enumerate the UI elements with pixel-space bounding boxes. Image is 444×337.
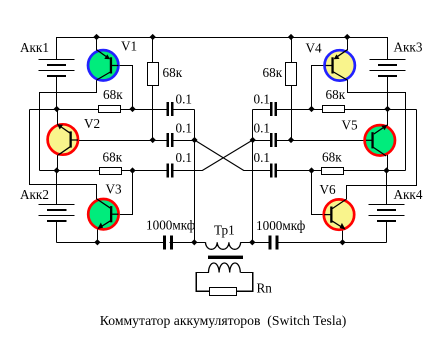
svg-text:V1: V1 <box>121 39 137 54</box>
svg-text:0.1: 0.1 <box>176 92 192 107</box>
svg-text:0.1: 0.1 <box>176 121 192 136</box>
svg-text:68к: 68к <box>322 150 342 165</box>
svg-text:1000мкф: 1000мкф <box>146 218 196 233</box>
svg-text:Rn: Rn <box>257 281 273 296</box>
svg-text:68к: 68к <box>103 150 123 165</box>
svg-text:0.1: 0.1 <box>254 150 270 165</box>
svg-text:68к: 68к <box>326 87 346 102</box>
svg-text:0.1: 0.1 <box>176 150 192 165</box>
svg-text:V5: V5 <box>342 118 359 133</box>
svg-text:68к: 68к <box>103 87 123 102</box>
svg-text:Коммутатор аккумуляторов (Swi: Коммутатор аккумуляторов (Switch Tesla) <box>100 313 346 329</box>
svg-text:Акк3: Акк3 <box>394 40 423 55</box>
svg-text:V3: V3 <box>106 182 123 197</box>
svg-text:V4: V4 <box>306 41 323 56</box>
svg-text:V6: V6 <box>320 182 337 197</box>
svg-text:0.1: 0.1 <box>254 92 270 107</box>
svg-text:0.1: 0.1 <box>254 121 270 136</box>
svg-text:1000мкф: 1000мкф <box>256 218 306 233</box>
svg-text:Акк2: Акк2 <box>20 187 49 202</box>
svg-text:Тр1: Тр1 <box>214 223 235 238</box>
svg-text:Акк1: Акк1 <box>20 40 49 55</box>
svg-text:68к: 68к <box>263 65 283 80</box>
svg-text:Акк4: Акк4 <box>394 187 423 202</box>
svg-text:68к: 68к <box>163 65 183 80</box>
svg-text:V2: V2 <box>84 116 100 131</box>
